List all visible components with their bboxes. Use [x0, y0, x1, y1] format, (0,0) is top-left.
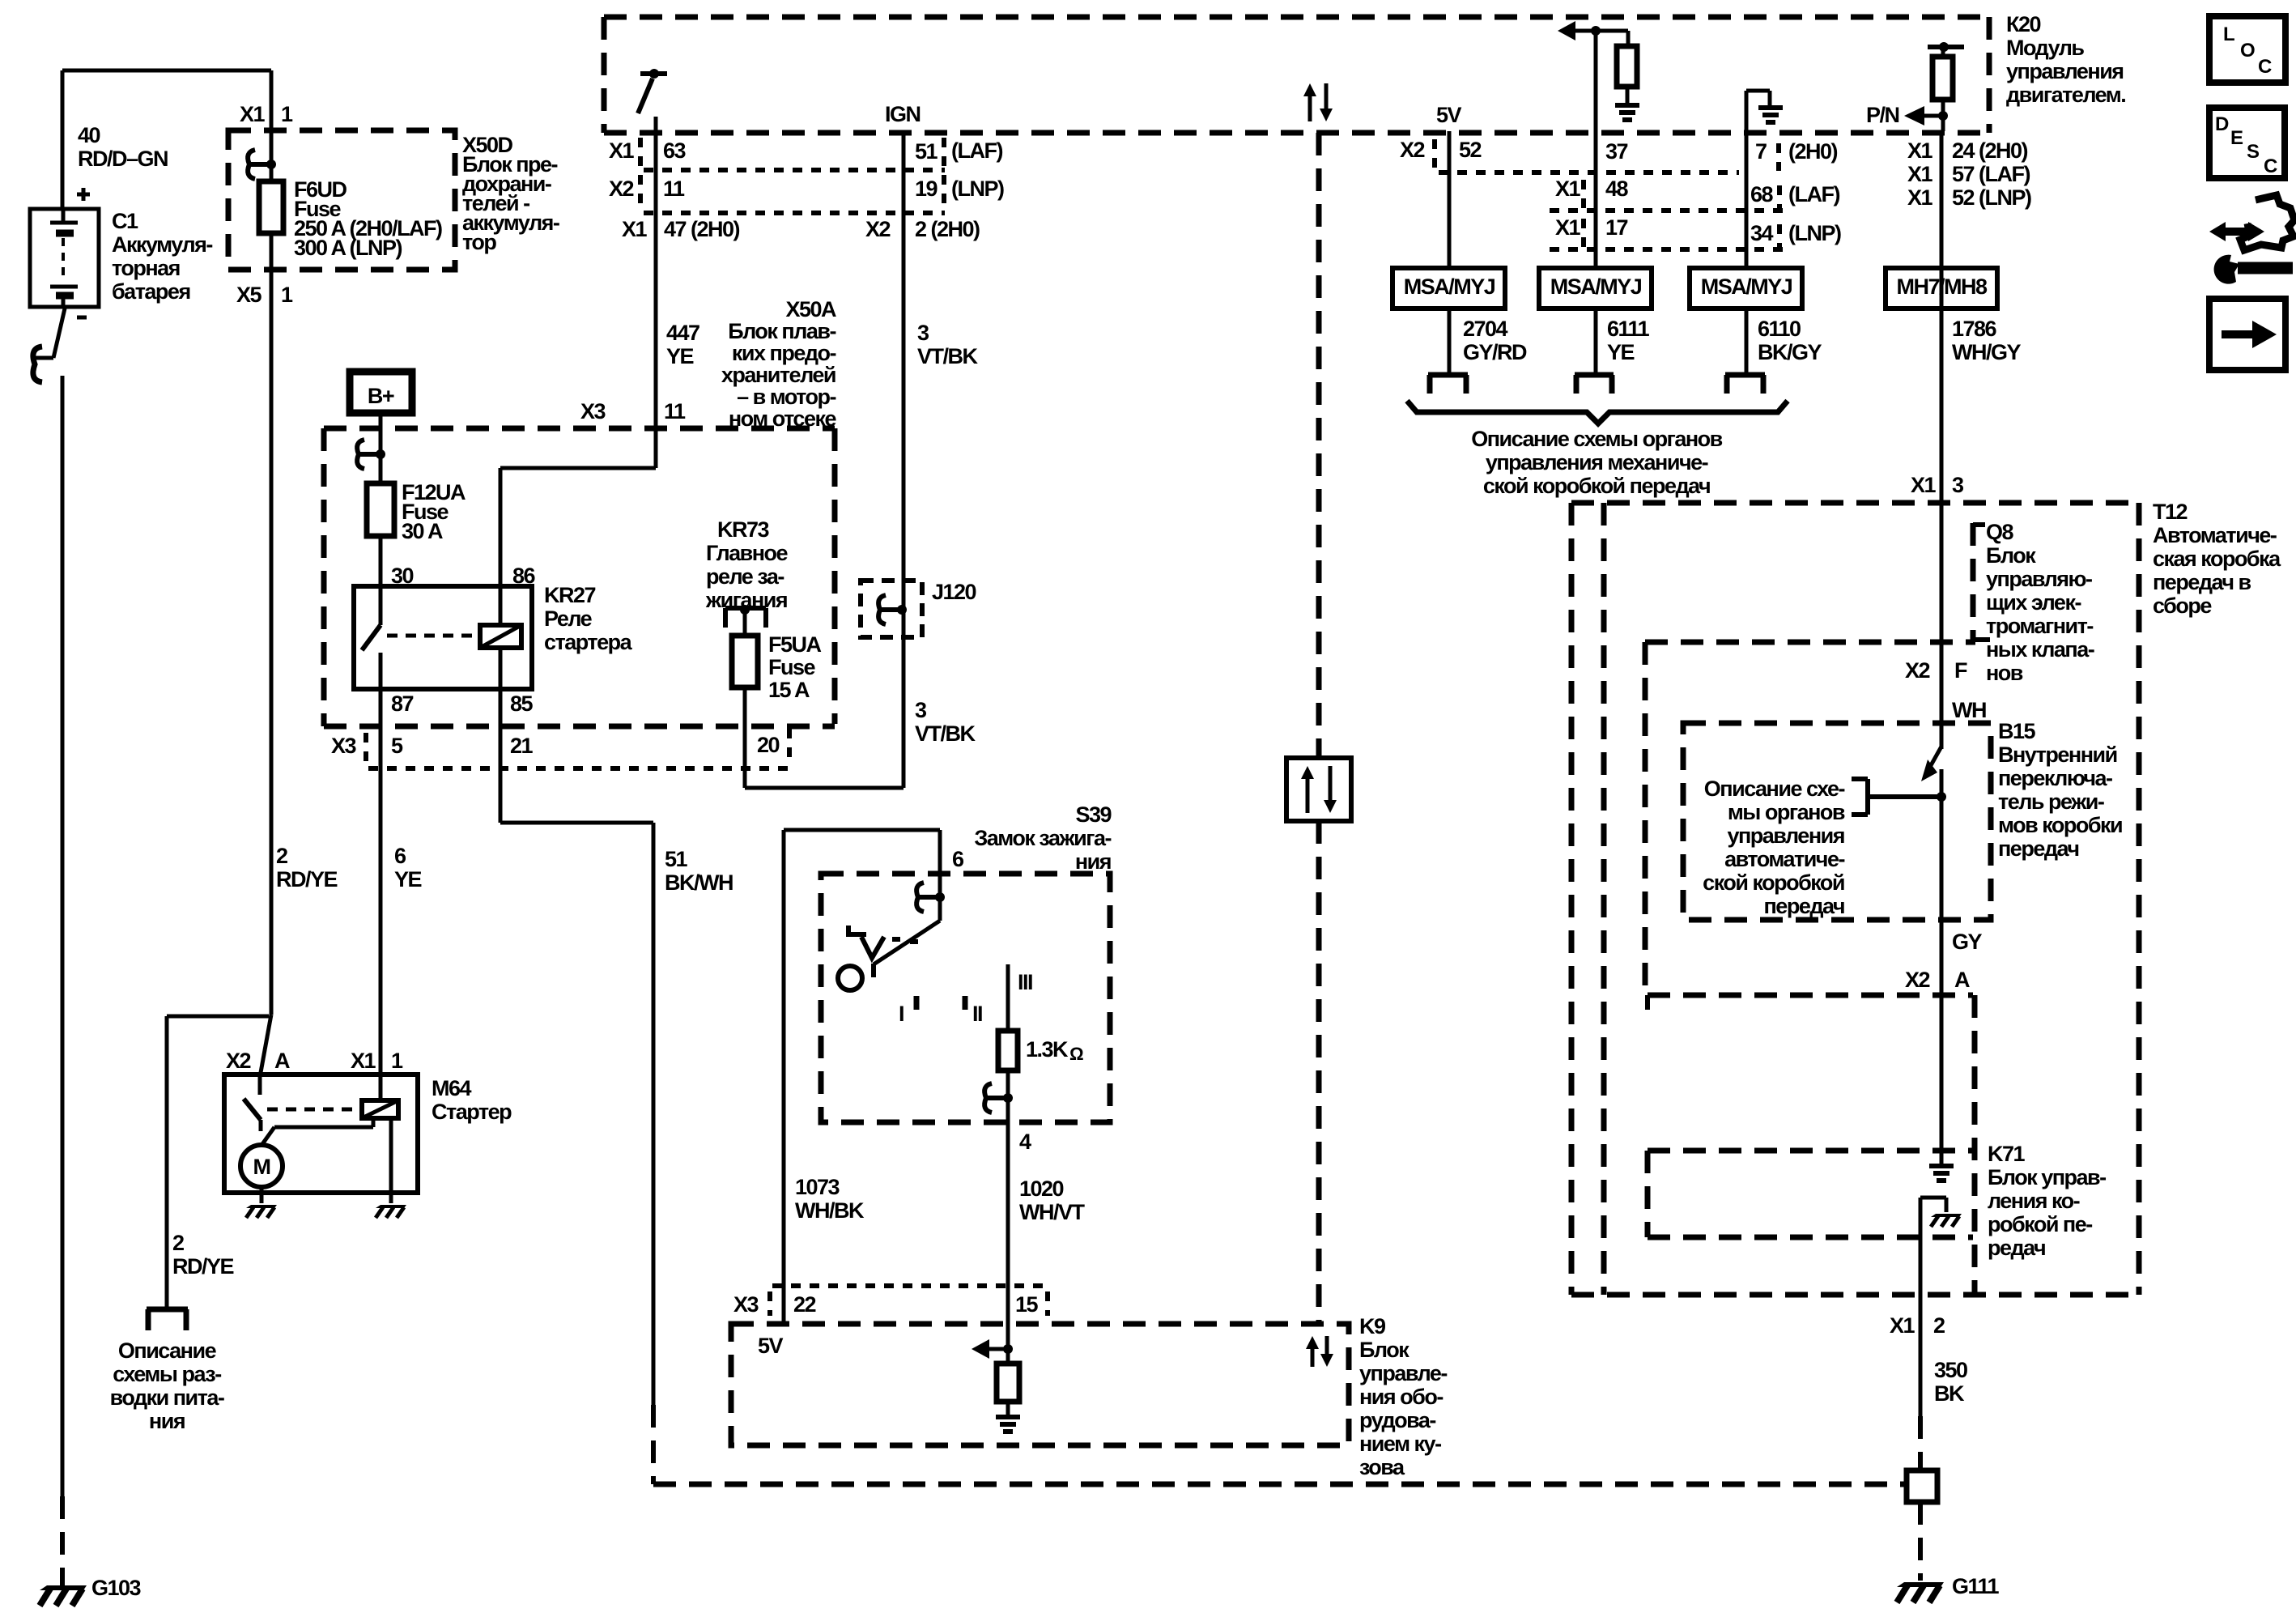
- svg-text:17: 17: [1605, 215, 1628, 240]
- svg-text:Реле: Реле: [544, 606, 593, 631]
- svg-text:RD/YE: RD/YE: [172, 1254, 234, 1279]
- svg-text:управления механиче-: управления механиче-: [1486, 450, 1708, 474]
- svg-text:управле-: управле-: [1359, 1361, 1447, 1385]
- splice clip X50A: [359, 452, 381, 457]
- svg-text:X2: X2: [609, 177, 634, 201]
- wire battery negative with splice: [53, 309, 65, 358]
- svg-text:6111: 6111: [1607, 317, 1650, 341]
- wire 447 YE from K20 switch: [654, 117, 658, 468]
- svg-text:ния: ния: [1075, 849, 1111, 874]
- svg-text:управляю-: управляю-: [1986, 567, 2092, 591]
- wire B15 bottom: [1940, 769, 1944, 995]
- svg-text:передач в: передач в: [2153, 570, 2251, 594]
- svg-text:X2: X2: [865, 217, 891, 241]
- wire X2 A to ground: [1940, 995, 1944, 1164]
- svg-text:40: 40: [78, 123, 100, 147]
- svg-text:47 (2H0): 47 (2H0): [664, 217, 740, 241]
- svg-text:нием ку-: нием ку-: [1359, 1432, 1441, 1456]
- wire 1020 WH/VT: [1006, 1122, 1010, 1349]
- position ticks: [914, 996, 920, 1010]
- svg-text:3: 3: [917, 321, 929, 345]
- arrow and resistor in K20: [1575, 29, 1628, 33]
- svg-text:III: III: [1018, 970, 1032, 994]
- brace: [1407, 401, 1788, 423]
- svg-text:6110: 6110: [1758, 317, 1801, 341]
- wire to G103: [61, 376, 65, 1496]
- svg-text:24 (2H0): 24 (2H0): [1952, 138, 2028, 163]
- svg-text:1020: 1020: [1019, 1177, 1064, 1201]
- svg-text:KR73: KR73: [717, 517, 770, 542]
- svg-text:(LAF): (LAF): [951, 138, 1002, 163]
- svg-text:52 (LNP): 52 (LNP): [1952, 185, 2031, 210]
- svg-text:редач: редач: [1988, 1236, 2045, 1260]
- relay KR27 box: [354, 586, 532, 689]
- svg-text:Блок: Блок: [1359, 1338, 1409, 1362]
- svg-text:X1: X1: [1907, 138, 1933, 163]
- wire to G111: [1918, 1502, 1923, 1581]
- wire 350 BK top: [1920, 1196, 1946, 1200]
- svg-text:батарея: батарея: [112, 279, 190, 304]
- connector X3 22 15 row: [772, 1283, 1048, 1288]
- svg-text:ской коробкой передач: ской коробкой передач: [1483, 474, 1710, 498]
- svg-text:G103: G103: [91, 1576, 142, 1600]
- svg-text:X1: X1: [1907, 162, 1933, 186]
- svg-text:2704: 2704: [1463, 317, 1508, 341]
- junction J120 box: [861, 581, 922, 637]
- battery C1 minus sign: [77, 316, 87, 320]
- svg-text:A: A: [274, 1049, 290, 1073]
- svg-text:68: 68: [1750, 182, 1774, 206]
- wire 1786 WH/GY: [1940, 131, 1944, 639]
- connector X3 row: [368, 766, 791, 771]
- svg-text:BK/WH: BK/WH: [665, 870, 733, 895]
- relay KR27 switch: [379, 586, 383, 625]
- svg-text:X2: X2: [1905, 658, 1930, 683]
- connector X2 F row: [1645, 640, 1975, 645]
- inline connector: [1907, 1470, 1937, 1502]
- svg-text:M64: M64: [432, 1076, 472, 1100]
- svg-text:2: 2: [276, 844, 287, 868]
- svg-text:MSA/MYJ: MSA/MYJ: [1550, 274, 1642, 299]
- svg-text:300 A (LNP): 300 A (LNP): [294, 236, 402, 260]
- svg-text:1.3K: 1.3K: [1026, 1037, 1069, 1062]
- svg-text:1: 1: [281, 283, 293, 307]
- earth ground K9: [996, 1415, 1020, 1419]
- svg-text:схемы раз-: схемы раз-: [113, 1362, 221, 1386]
- svg-text:E: E: [2230, 127, 2243, 149]
- svg-text:6: 6: [394, 844, 406, 868]
- svg-text:автоматиче-: автоматиче-: [1724, 847, 1844, 871]
- starter motor link: [372, 1118, 376, 1127]
- svg-text:К20: К20: [2006, 12, 2040, 36]
- svg-text:GY/RD: GY/RD: [1463, 340, 1527, 364]
- svg-text:Автоматиче-: Автоматиче-: [2153, 523, 2277, 547]
- wire position III: [1006, 964, 1010, 1031]
- ground solenoid: [376, 1205, 406, 1208]
- ground row box: [1648, 1148, 1973, 1154]
- svg-text:20: 20: [757, 733, 780, 757]
- battery C1 plus sign: [77, 193, 90, 197]
- ignition switch S39 box: [821, 874, 1110, 1122]
- svg-text:Q8: Q8: [1986, 520, 2014, 544]
- svg-text:63: 63: [663, 138, 687, 163]
- svg-text:Блок плав-: Блок плав-: [728, 319, 835, 343]
- svg-text:57 (LAF): 57 (LAF): [1952, 162, 2030, 186]
- terminal B+: [350, 372, 412, 413]
- svg-text:Ω: Ω: [1069, 1044, 1083, 1064]
- wire 2704: [1448, 309, 1452, 373]
- switch rotor circle: [838, 966, 862, 990]
- wire 6111: [1594, 309, 1598, 373]
- dashed wire bottom: [653, 1482, 1907, 1487]
- ground G111: [1897, 1582, 1944, 1587]
- connector X50D box: [228, 130, 455, 270]
- svg-text:5: 5: [391, 734, 403, 758]
- svg-text:ния: ния: [149, 1409, 185, 1433]
- wire 1073 WH/BK top: [782, 830, 786, 1323]
- svg-text:WH/GY: WH/GY: [1952, 340, 2021, 364]
- svg-text:350: 350: [1934, 1358, 1967, 1382]
- svg-text:KR27: KR27: [544, 583, 596, 607]
- svg-text:нов: нов: [1986, 661, 2023, 685]
- svg-text:M: M: [253, 1155, 270, 1179]
- svg-text:управления: управления: [2006, 59, 2124, 83]
- resistor in K9: [1006, 1349, 1010, 1364]
- svg-text:85: 85: [510, 691, 534, 716]
- svg-text:Главное: Главное: [706, 541, 789, 565]
- svg-text:WH: WH: [1952, 698, 1986, 722]
- wire relay 85 down: [499, 689, 503, 823]
- svg-text:Х3: Х3: [733, 1292, 759, 1317]
- svg-text:IGN: IGN: [885, 102, 921, 126]
- svg-text:RD/D–GN: RD/D–GN: [78, 147, 168, 171]
- svg-text:(2H0): (2H0): [1788, 139, 1838, 164]
- wire 2 RD/YE down: [270, 233, 274, 1015]
- wire 350 BK dashed: [1918, 1416, 1923, 1470]
- wire 40 RD/D-GN top: [62, 69, 271, 73]
- relay KR73 contact: [725, 606, 766, 611]
- svg-text:2: 2: [172, 1231, 184, 1255]
- svg-text:J120: J120: [932, 580, 976, 604]
- svg-text:D: D: [2215, 113, 2229, 135]
- battery C1: [30, 209, 99, 307]
- svg-text:22: 22: [793, 1292, 816, 1317]
- svg-text:F5UA: F5UA: [768, 632, 822, 657]
- svg-text:34: 34: [1750, 221, 1774, 245]
- svg-text:передач: передач: [1764, 894, 1845, 918]
- svg-text:11: 11: [663, 177, 685, 201]
- svg-text:5V: 5V: [758, 1334, 784, 1358]
- wire fuse column top: [270, 70, 274, 180]
- bracket 3: [1725, 372, 1765, 378]
- svg-text:II: II: [972, 1002, 982, 1026]
- svg-text:F: F: [1954, 658, 1967, 683]
- svg-text:VT/BK: VT/BK: [917, 344, 979, 368]
- svg-text:ном отсеке: ном отсеке: [729, 406, 837, 431]
- svg-text:Аккумуля-: Аккумуля-: [112, 232, 212, 257]
- bracket 2: [1575, 372, 1614, 378]
- svg-text:3: 3: [1952, 473, 1964, 497]
- sensor box MSA/MYJ 1: [1392, 268, 1505, 309]
- svg-text:MH7/MH8: MH7/MH8: [1896, 274, 1987, 299]
- svg-text:X2: X2: [1905, 968, 1930, 992]
- svg-text:YE: YE: [666, 344, 694, 368]
- svg-text:X2: X2: [1400, 138, 1425, 162]
- svg-text:ской коробкой: ской коробкой: [1703, 870, 1844, 895]
- splice J120: [881, 607, 902, 612]
- svg-text:X1: X1: [1890, 1313, 1915, 1338]
- wire relay 87 down: [379, 689, 383, 1100]
- wire B+ to fuse: [379, 416, 383, 483]
- svg-text:X1: X1: [351, 1049, 376, 1073]
- arrow in K9: [972, 1339, 989, 1359]
- starter link dashed: [267, 1108, 356, 1112]
- K20 box: [604, 15, 1989, 20]
- switch blade B15: [1930, 747, 1941, 767]
- svg-text:RD/YE: RD/YE: [276, 867, 338, 891]
- svg-text:1: 1: [281, 102, 293, 126]
- svg-text:48: 48: [1605, 177, 1629, 201]
- svg-text:4: 4: [1019, 1130, 1031, 1154]
- svg-text:1: 1: [391, 1049, 403, 1073]
- svg-text:X1: X1: [1911, 473, 1937, 497]
- svg-text:ния обо-: ния обо-: [1359, 1385, 1443, 1409]
- wire IGN 3 VT/BK: [902, 131, 906, 788]
- svg-text:сборе: сборе: [2153, 594, 2212, 618]
- svg-text:2 (2H0): 2 (2H0): [915, 217, 980, 241]
- fuse F12UA: [367, 483, 394, 536]
- connector row dots right: [1439, 170, 1739, 175]
- svg-text:торная: торная: [112, 256, 180, 280]
- up-down arrows K9: [1311, 1347, 1315, 1367]
- icon arrow box: [2209, 299, 2285, 370]
- svg-text:мов коробки: мов коробки: [1998, 813, 2122, 837]
- earth ground K20 b: [1758, 105, 1783, 110]
- svg-text:BK: BK: [1934, 1381, 1965, 1406]
- arrow P/N: [1924, 114, 1943, 118]
- dashed wire to K9: [1316, 133, 1322, 758]
- detent marks: [848, 926, 866, 934]
- svg-text:L: L: [2223, 23, 2234, 45]
- icon LOC: [2209, 16, 2285, 83]
- starter motor M: [240, 1145, 283, 1187]
- fuse box X50A: [324, 426, 835, 432]
- svg-text:Описание схе-: Описание схе-: [1704, 777, 1845, 801]
- ground motor: [246, 1205, 277, 1208]
- svg-text:(LNP): (LNP): [1788, 221, 1841, 245]
- wire F5UA down: [743, 687, 747, 788]
- svg-text:Х3: Х3: [331, 734, 357, 758]
- svg-text:Fuse: Fuse: [768, 655, 816, 679]
- svg-text:B+: B+: [368, 384, 394, 408]
- splice clip in X50D: [250, 162, 271, 167]
- svg-text:Описание схемы органов: Описание схемы органов: [1471, 427, 1722, 451]
- svg-text:(LNP): (LNP): [951, 177, 1004, 201]
- connector X2 A row: [1648, 993, 1973, 998]
- svg-text:6: 6: [952, 847, 964, 871]
- svg-text:Блок: Блок: [1986, 543, 2036, 568]
- svg-text:ления ко-: ления ко-: [1988, 1189, 2080, 1213]
- icon wrench: [2214, 255, 2239, 284]
- svg-text:G111: G111: [1952, 1574, 2000, 1598]
- svg-text:Замок зажига-: Замок зажига-: [974, 826, 1111, 850]
- starter switch: [258, 1074, 262, 1095]
- K9 box: [731, 1324, 1349, 1445]
- wire solenoid ground: [389, 1118, 393, 1203]
- svg-text:X1: X1: [1907, 185, 1933, 210]
- svg-text:тор: тор: [462, 230, 496, 254]
- svg-text:I: I: [899, 1002, 904, 1026]
- fuse F6UD: [259, 181, 283, 233]
- wire F12UA to relay 30: [379, 536, 383, 586]
- svg-text:MSA/MYJ: MSA/MYJ: [1701, 274, 1792, 299]
- sensor box MSA/MYJ 3: [1690, 268, 1802, 309]
- svg-text:30 A: 30 A: [402, 519, 443, 543]
- svg-text:VT/BK: VT/BK: [915, 721, 976, 746]
- svg-text:A: A: [1954, 968, 1970, 992]
- svg-text:рудова-: рудова-: [1359, 1408, 1435, 1432]
- switch blade S39: [938, 897, 942, 921]
- svg-text:MSA/MYJ: MSA/MYJ: [1404, 274, 1495, 299]
- svg-text:робкой пе-: робкой пе-: [1988, 1212, 2092, 1236]
- B15 box: [1683, 723, 1991, 920]
- wire 37 column: [1594, 31, 1598, 268]
- wire 5V column: [1448, 131, 1452, 268]
- svg-text:7: 7: [1755, 139, 1767, 164]
- icon DESC: [2209, 108, 2285, 178]
- up-down arrows top: [1308, 95, 1312, 121]
- starter M64 box: [224, 1074, 418, 1193]
- resistor 1.3K: [998, 1031, 1018, 1070]
- svg-text:O: O: [2240, 40, 2255, 62]
- svg-text:87: 87: [391, 691, 414, 716]
- svg-text:11: 11: [664, 399, 686, 423]
- wire 2 RD/YE branch: [167, 1015, 269, 1019]
- svg-text:ская коробка: ская коробка: [2153, 547, 2281, 571]
- wire resistor down: [1006, 1070, 1010, 1122]
- relay KR27 coil: [480, 625, 521, 648]
- earth ground K71: [1929, 1164, 1954, 1168]
- ground chassis K71: [1931, 1214, 1962, 1217]
- svg-text:(LAF): (LAF): [1788, 182, 1839, 206]
- sensor box MH7/MH8: [1886, 268, 1997, 309]
- svg-text:447: 447: [666, 321, 699, 345]
- svg-text:B15: B15: [1998, 719, 2036, 743]
- svg-text:37: 37: [1605, 139, 1628, 164]
- svg-text:K9: K9: [1359, 1314, 1386, 1338]
- svg-text:Внутренний: Внутренний: [1998, 743, 2117, 767]
- svg-text:ных клапа-: ных клапа-: [1986, 637, 2094, 662]
- svg-text:5V: 5V: [1436, 103, 1462, 127]
- svg-text:тель режи-: тель режи-: [1998, 789, 2104, 814]
- svg-text:– в мотор-: – в мотор-: [737, 385, 835, 409]
- svg-text:51: 51: [915, 139, 938, 164]
- Q8 box bracket: [1971, 523, 1976, 641]
- svg-text:1786: 1786: [1952, 317, 1997, 341]
- svg-text:тромагнит-: тромагнит-: [1986, 614, 2093, 638]
- svg-text:WH/BK: WH/BK: [795, 1198, 865, 1223]
- svg-text:X1: X1: [1555, 215, 1581, 240]
- svg-text:52: 52: [1459, 138, 1482, 162]
- svg-text:X50A: X50A: [785, 297, 836, 321]
- svg-text:C: C: [2258, 56, 2272, 78]
- svg-text:S: S: [2247, 141, 2260, 163]
- svg-text:15: 15: [1015, 1292, 1039, 1317]
- svg-text:Описание: Описание: [118, 1338, 217, 1363]
- svg-text:YE: YE: [1607, 340, 1635, 364]
- wire 6110: [1745, 309, 1749, 373]
- svg-text:P/N: P/N: [1866, 103, 1899, 127]
- icon connector view: [2240, 195, 2294, 250]
- svg-text:управления: управления: [1727, 823, 1844, 848]
- switch in K20: [640, 71, 667, 76]
- svg-text:хранителей: хранителей: [721, 363, 835, 387]
- splice S39 lower: [987, 1096, 1008, 1100]
- svg-text:водки пита-: водки пита-: [110, 1385, 224, 1410]
- up-down arrow box: [1286, 758, 1351, 821]
- svg-text:1073: 1073: [795, 1175, 840, 1199]
- svg-text:мы органов: мы органов: [1728, 800, 1845, 824]
- svg-text:YE: YE: [394, 867, 422, 891]
- svg-text:стартера: стартера: [544, 630, 633, 654]
- bracket 1: [1428, 372, 1468, 378]
- svg-text:переключа-: переключа-: [1998, 766, 2112, 790]
- wire 51 BK/WH: [500, 821, 653, 825]
- splice S39: [919, 895, 940, 900]
- earth ground K20 a: [1615, 103, 1639, 108]
- fuse F5UA: [732, 636, 758, 687]
- wire 447 YE jog: [500, 466, 656, 470]
- svg-text:зова: зова: [1359, 1455, 1405, 1479]
- sensor box MSA/MYJ 2: [1539, 268, 1652, 309]
- relay KR27 link: [387, 634, 476, 638]
- svg-text:X1: X1: [1555, 177, 1581, 201]
- svg-text:15 A: 15 A: [768, 678, 810, 702]
- svg-text:Х3: Х3: [580, 399, 606, 423]
- svg-text:реле за-: реле за-: [706, 564, 784, 589]
- svg-text:2: 2: [1933, 1313, 1945, 1338]
- connector X2 52: [1432, 139, 1437, 168]
- svg-text:Стартер: Стартер: [432, 1100, 512, 1124]
- svg-text:BK/GY: BK/GY: [1758, 340, 1822, 364]
- T12 box: [1571, 500, 2139, 506]
- svg-text:X5: X5: [236, 283, 262, 307]
- svg-text:X1: X1: [240, 102, 266, 126]
- svg-text:двигателем.: двигателем.: [2006, 83, 2125, 107]
- wire 7 column: [1745, 91, 1749, 268]
- svg-text:T12: T12: [2153, 500, 2188, 524]
- ground G103: [40, 1585, 87, 1590]
- svg-text:GY: GY: [1952, 930, 1983, 954]
- svg-text:X1: X1: [622, 217, 648, 241]
- wire B15 top: [1940, 639, 1944, 749]
- connector row dotted lines K20 left: [644, 168, 945, 172]
- svg-text:щих элек-: щих элек-: [1986, 590, 2081, 615]
- connector dots col3: [1776, 143, 1781, 171]
- svg-text:K71: K71: [1988, 1142, 2026, 1166]
- svg-text:51: 51: [665, 847, 688, 871]
- starter solenoid coil: [362, 1100, 398, 1118]
- svg-text:C1: C1: [112, 209, 138, 233]
- svg-text:21: 21: [510, 734, 534, 758]
- svg-text:Модуль: Модуль: [2006, 36, 2084, 60]
- connector dots 48 17: [1581, 180, 1586, 209]
- svg-text:передач: передач: [1998, 836, 2079, 861]
- svg-text:X2: X2: [226, 1049, 251, 1073]
- svg-text:X1: X1: [609, 138, 635, 163]
- K71 box left edge: [1972, 995, 1978, 1295]
- svg-text:WH/VT: WH/VT: [1019, 1200, 1085, 1224]
